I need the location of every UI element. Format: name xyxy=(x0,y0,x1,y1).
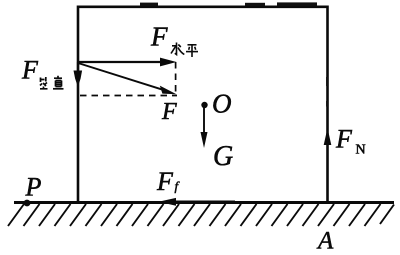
arrowhead G xyxy=(201,132,208,148)
wire: G gravity arrow shaft xyxy=(203,107,205,136)
svg-text:F: F xyxy=(161,99,177,125)
wire: F resultant diagonal arrow xyxy=(78,63,163,90)
ground line xyxy=(14,201,394,204)
node P dot xyxy=(24,200,31,207)
dashed vertical construction line xyxy=(175,62,177,96)
label subscript 竖 xyxy=(40,77,48,89)
smudge on right edge xyxy=(326,77,328,86)
label subscript 直 xyxy=(53,76,64,89)
svg-text:f: f xyxy=(175,179,181,194)
node O dot xyxy=(201,102,207,108)
arrowhead Ff friction xyxy=(159,198,177,206)
smudge marks on top edge xyxy=(140,3,158,6)
wire: friction arrow shaft xyxy=(165,201,235,203)
arrowhead FN (normal force, on right edge) xyxy=(324,128,332,145)
label subscript 水 xyxy=(171,43,184,55)
wire: F vertical component arrow shaft xyxy=(77,62,79,76)
ground hatching xyxy=(8,204,394,226)
arrowhead F resultant xyxy=(160,86,177,95)
block (box) outline xyxy=(78,7,328,202)
svg-text:G: G xyxy=(213,141,233,172)
arrowhead F horizontal xyxy=(160,58,177,67)
svg-text:N: N xyxy=(356,143,366,158)
arrowhead F vertical xyxy=(74,71,83,88)
svg-text:F: F xyxy=(150,22,168,52)
svg-text:F: F xyxy=(156,167,174,196)
svg-text:O: O xyxy=(212,89,232,119)
wire: F horizontal arrow shaft xyxy=(78,61,163,63)
svg-text:F: F xyxy=(21,56,39,85)
svg-text:P: P xyxy=(25,173,42,202)
svg-text:F: F xyxy=(335,125,353,154)
label subscript 平 xyxy=(186,45,198,57)
dashed horizontal construction line xyxy=(80,95,177,97)
svg-text:A: A xyxy=(316,228,334,255)
